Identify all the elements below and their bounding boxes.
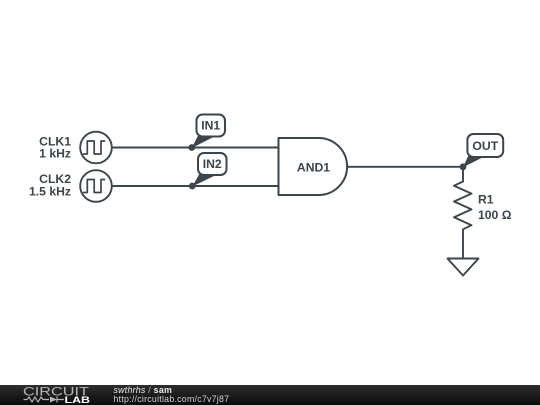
flag IN1 box <box>197 115 226 137</box>
clock source V2 (CLK2) <box>80 170 112 202</box>
node OUT junction dot <box>460 163 467 170</box>
wire node OUT down to resistor R1 <box>462 167 464 182</box>
flag OUT box <box>467 134 503 157</box>
logo diode symbol <box>50 397 57 403</box>
ground symbol <box>448 259 479 276</box>
resistor R1 zigzag <box>454 182 472 259</box>
svg-text:LAB: LAB <box>65 395 91 405</box>
node IN1 junction dot <box>188 144 195 151</box>
svg-text:IN2: IN2 <box>203 157 222 171</box>
svg-text:OUT: OUT <box>472 139 498 153</box>
CircuitLab logo <box>0 385 110 405</box>
svg-text:R1: R1 <box>478 192 494 206</box>
svg-text:1 kHz: 1 kHz <box>39 147 71 161</box>
flag IN2 box <box>198 153 227 175</box>
flag IN2 tail <box>192 171 215 187</box>
svg-text:IN1: IN1 <box>201 119 220 133</box>
clock source V1 (CLK1) <box>80 132 112 164</box>
svg-text:100 Ω: 100 Ω <box>478 208 512 222</box>
AND gate AND1 <box>279 138 348 195</box>
footer credits <box>114 386 230 403</box>
svg-text:AND1: AND1 <box>297 161 330 175</box>
logo resistor squiggle and wire <box>24 397 65 403</box>
node IN2 junction dot <box>189 183 196 190</box>
flag OUT tail <box>463 152 485 167</box>
wire AND1 output to node OUT <box>347 166 463 168</box>
flag IN1 tail <box>192 133 214 149</box>
svg-text:1.5 kHz: 1.5 kHz <box>29 185 71 199</box>
wire CLK1 to AND1 input A <box>112 147 279 149</box>
footer bar <box>0 385 540 405</box>
wire CLK2 to AND1 input B <box>112 185 279 187</box>
